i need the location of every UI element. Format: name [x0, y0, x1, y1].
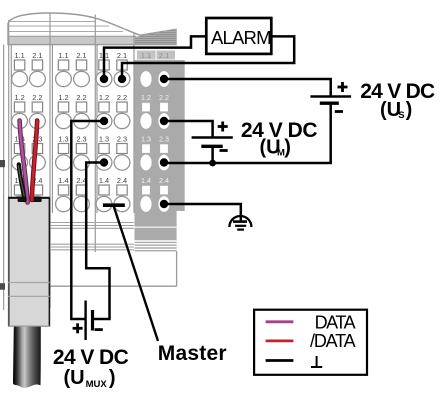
battery Umux plus sign [73, 323, 83, 333]
svg-text:Master: Master [158, 342, 227, 365]
svg-text:2.3: 2.3 [159, 135, 169, 144]
wire shield (black) from terminal 1.3 M1 into cable [19, 165, 25, 201]
earth ground symbol [229, 216, 251, 230]
DIN rail edge ticks [0, 160, 5, 167]
svg-text:): ) [406, 99, 413, 121]
svg-text:2.1: 2.1 [159, 51, 170, 60]
svg-text:2.3: 2.3 [76, 135, 86, 144]
svg-text:24 V DC: 24 V DC [53, 346, 129, 369]
svg-text:ALARM: ALARM [211, 27, 272, 48]
connection dots M3 [100, 75, 126, 167]
ALARM box [206, 18, 271, 54]
svg-text:2.1: 2.1 [76, 51, 86, 60]
svg-text:S: S [398, 110, 404, 121]
svg-text:1.3: 1.3 [99, 135, 109, 144]
wire DATA (magenta) from terminal 1.2 M1 into cable [20, 121, 28, 203]
shielded cable sleeve [8, 198, 50, 327]
terminal block housing roof [8, 13, 176, 45]
svg-text:2.1: 2.1 [32, 51, 42, 60]
wire /DATA (red) from terminal 2.2 M1 into cable [32, 121, 37, 201]
wire: Us battery minus down and left to terminal 2.3 M4 [164, 104, 331, 163]
legend /DATA line [266, 339, 294, 342]
svg-text:1.2: 1.2 [58, 93, 68, 102]
svg-text:2.2: 2.2 [159, 93, 169, 102]
battery Um plus sign [218, 122, 228, 132]
svg-text:1.1: 1.1 [141, 51, 152, 60]
svg-text:DATA: DATA [315, 313, 356, 333]
svg-text:1.3: 1.3 [58, 135, 68, 144]
battery Us plus plate [310, 95, 351, 97]
svg-text:2.4: 2.4 [159, 176, 169, 185]
wire: ALARM right to terminal 2.1 M3 [122, 36, 294, 79]
terminal module M3 labels/squares/circles [96, 51, 130, 212]
svg-text:1.4: 1.4 [141, 176, 151, 185]
svg-text:1.3: 1.3 [141, 135, 151, 144]
battery Us minus sign [335, 110, 343, 113]
module M4 row1 label patches [137, 51, 175, 61]
svg-text:1.1: 1.1 [14, 51, 24, 60]
svg-text:(U: (U [64, 367, 85, 389]
svg-text:2.2: 2.2 [76, 93, 86, 102]
pointer line to Master [114, 207, 158, 342]
svg-text:): ) [109, 367, 116, 389]
battery Um minus sign [220, 149, 228, 152]
module M4 terminals [140, 71, 169, 212]
terminal module M2 labels/squares/circles [56, 51, 90, 212]
svg-text:1.4: 1.4 [99, 176, 109, 185]
module frame lines [4, 14, 176, 311]
wire: terminal 2.4 M4 to earth [164, 204, 241, 222]
svg-text:2.3: 2.3 [117, 135, 127, 144]
battery Umux plus plate [84, 301, 86, 341]
battery Umux minus plate [91, 310, 94, 331]
wire: terminal 1.1 M3 to ALARM left [104, 36, 206, 79]
svg-text:): ) [284, 136, 291, 158]
terminal module M4 dark body [45, 60, 185, 286]
svg-text:2.1: 2.1 [117, 51, 127, 60]
legend box [254, 310, 367, 375]
cable entry clamp [18, 198, 27, 202]
battery Um minus plate [201, 145, 222, 148]
terminal module M1 labels/squares/circles [12, 51, 46, 212]
svg-text:1.1: 1.1 [58, 51, 68, 60]
battery Um plus plate [192, 136, 233, 138]
battery Umux minus sign [95, 328, 103, 331]
wire: terminal 2.2 M4 to 24V Um battery plus [164, 121, 213, 137]
legend shield symbol [311, 356, 322, 367]
svg-text:1.2: 1.2 [141, 93, 151, 102]
svg-text:2.2: 2.2 [32, 93, 42, 102]
legend shield line [266, 359, 294, 362]
jumper bar terminals 1.4-2.4 M3 [103, 203, 125, 207]
connection dots M4 [160, 75, 168, 208]
svg-text:2.2: 2.2 [117, 93, 127, 102]
svg-text:1.2: 1.2 [99, 93, 109, 102]
svg-text:1.4: 1.4 [58, 176, 68, 185]
wire: terminal 1.2 M3 to Umux battery plus [71, 121, 104, 319]
battery Us minus plate [320, 101, 339, 104]
svg-text:MUX: MUX [86, 379, 108, 390]
wire: terminal 2.1 M4 to 24V Us battery plus [164, 79, 331, 96]
svg-text:/DATA: /DATA [310, 331, 356, 351]
wire: terminal 1.3 M3 to Umux battery minus [86, 163, 109, 320]
svg-text:1.2: 1.2 [14, 93, 24, 102]
legend DATA line [266, 320, 294, 323]
junction dot Um minus on Us minus net [209, 160, 216, 167]
battery Us plus sign [338, 82, 348, 92]
svg-text:2.4: 2.4 [117, 176, 127, 185]
wire: Um battery minus to junction [211, 147, 214, 163]
module lower housings [50, 223, 134, 250]
